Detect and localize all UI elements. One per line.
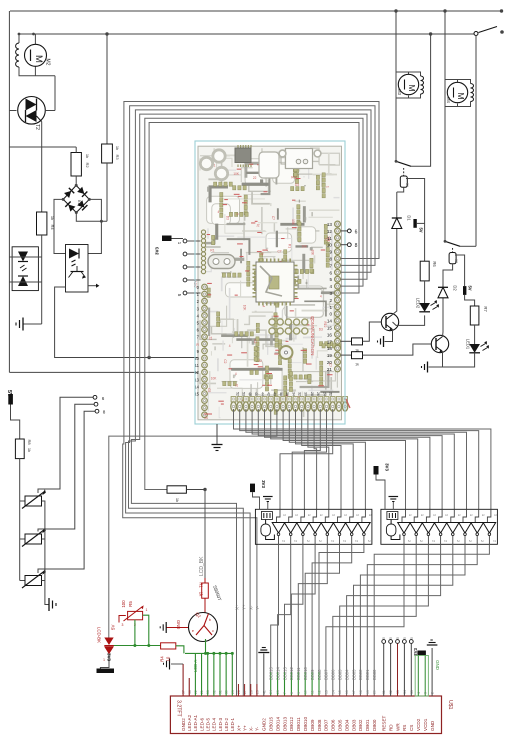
svg-text:J2: J2 bbox=[258, 359, 262, 363]
wire U6 output 7 to DB08 bbox=[319, 544, 364, 672]
svg-text:8: 8 bbox=[355, 243, 358, 249]
wire loop to touch pin 0 bbox=[123, 102, 379, 697]
PCB crystal bbox=[208, 255, 235, 269]
svg-text:J2: J2 bbox=[256, 223, 260, 227]
svg-text:12: 12 bbox=[318, 690, 322, 694]
node bridge top bbox=[75, 184, 78, 187]
svg-text:b: b bbox=[209, 618, 211, 622]
wire U3 top lead bbox=[9, 256, 41, 258]
svg-text:2: 2 bbox=[492, 540, 496, 542]
svg-text:DB010: DB010 bbox=[303, 717, 308, 731]
svg-text:C7: C7 bbox=[271, 216, 275, 220]
svg-text:U$1: U$1 bbox=[447, 700, 453, 710]
transistor T3 bbox=[431, 335, 448, 352]
wire green LED pin 6 bbox=[219, 653, 221, 696]
svg-text:12: 12 bbox=[327, 229, 333, 234]
wire green stub DB012 bbox=[290, 672, 292, 696]
wire U7 output 0 to DB07 bbox=[326, 544, 404, 696]
pin stub touch bbox=[250, 684, 252, 696]
wire PCB data 12 to driver bank bbox=[314, 409, 317, 509]
svg-text:5V: 5V bbox=[468, 285, 473, 290]
wire PCB data 11 to driver bank bbox=[308, 409, 329, 509]
pin GND2 mid ground bbox=[263, 654, 265, 697]
trimmer P1 bbox=[25, 496, 42, 506]
svg-text:22: 22 bbox=[253, 176, 257, 180]
svg-text:DB015: DB015 bbox=[269, 667, 274, 680]
node bridge left bbox=[62, 198, 65, 201]
svg-text:1: 1 bbox=[331, 514, 335, 516]
svg-text:5: 5 bbox=[403, 637, 407, 639]
junction M3 relay tap bbox=[429, 32, 432, 35]
svg-text:LCD-BK: LCD-BK bbox=[97, 627, 102, 643]
optocoupler U3 LED A bbox=[18, 252, 28, 262]
ground G1 bbox=[23, 323, 42, 325]
svg-text:1: 1 bbox=[283, 514, 287, 516]
svg-text:11: 11 bbox=[327, 236, 332, 241]
junction green bus bbox=[225, 652, 228, 655]
relay K2 switch bbox=[445, 241, 460, 246]
svg-text:1: 1 bbox=[356, 514, 360, 516]
PCB mounting holes bbox=[200, 157, 212, 169]
optocoupler U2 box bbox=[66, 245, 89, 293]
svg-text:DB013: DB013 bbox=[282, 667, 287, 680]
wire bridge right corner bbox=[88, 199, 101, 253]
svg-text:LED-3: LED-3 bbox=[218, 718, 223, 731]
wire U6 output 6 to DB09 bbox=[312, 544, 352, 672]
junction motor M2 top bbox=[32, 33, 35, 36]
svg-text:1: 1 bbox=[326, 186, 330, 188]
svg-text:16: 16 bbox=[327, 332, 333, 337]
wire U7 output 4 to DB03 bbox=[354, 544, 453, 696]
svg-text:DB013: DB013 bbox=[282, 717, 287, 731]
svg-text:15: 15 bbox=[338, 690, 342, 694]
wire LED1 to T3 emitter bbox=[443, 353, 475, 367]
svg-text:J2: J2 bbox=[260, 252, 264, 256]
wire left frame vertical bbox=[8, 11, 10, 372]
node bridge bottom bbox=[75, 211, 78, 214]
svg-text:M3: M3 bbox=[397, 89, 402, 95]
pin stub touch bbox=[256, 684, 258, 696]
svg-text:1: 1 bbox=[344, 514, 348, 516]
svg-text:5: 5 bbox=[389, 637, 393, 639]
wire PCB data 8 to driver bank bbox=[289, 409, 365, 509]
svg-text:C2: C2 bbox=[223, 359, 227, 363]
svg-text:Y+: Y+ bbox=[242, 604, 247, 610]
svg-text:38: 38 bbox=[279, 392, 283, 396]
node endpoint top right bbox=[500, 9, 503, 12]
svg-text:3V3: 3V3 bbox=[155, 247, 160, 256]
svg-text:2: 2 bbox=[318, 540, 322, 542]
ground G8 LCD bbox=[171, 663, 183, 665]
ground G4 bbox=[383, 336, 385, 347]
svg-text:10K: 10K bbox=[211, 377, 218, 381]
junction R3 tap bbox=[105, 32, 108, 35]
node bridge right bbox=[88, 198, 91, 201]
relay K2 coil bbox=[449, 253, 456, 264]
svg-text:R6: R6 bbox=[432, 261, 437, 267]
svg-text:19: 19 bbox=[366, 690, 370, 694]
svg-text:14: 14 bbox=[327, 319, 333, 324]
svg-text:20: 20 bbox=[373, 690, 377, 694]
PCB bottom pads bbox=[231, 397, 236, 402]
svg-text:K2: K2 bbox=[454, 259, 458, 263]
svg-text:R3: R3 bbox=[115, 154, 120, 160]
pin stub touch bbox=[237, 684, 239, 696]
svg-text:2: 2 bbox=[294, 540, 298, 542]
svg-text:1: 1 bbox=[457, 514, 461, 516]
wire PCB data 1 to driver bank bbox=[240, 409, 479, 509]
svg-text:DB012: DB012 bbox=[289, 717, 294, 731]
svg-text:LED-6: LED-6 bbox=[199, 718, 204, 731]
svg-text:6: 6 bbox=[102, 396, 105, 401]
power flag 3V3 U7 bbox=[374, 466, 379, 475]
svg-text:DB07: DB07 bbox=[324, 719, 329, 731]
svg-text:DB06: DB06 bbox=[331, 669, 336, 680]
svg-text:DB08: DB08 bbox=[317, 669, 322, 680]
svg-text:1: 1 bbox=[295, 514, 299, 516]
svg-text:DB015: DB015 bbox=[269, 717, 274, 731]
wire bridge bottom corner bbox=[76, 213, 107, 222]
wire U2 emitter to pad 10 line bbox=[55, 287, 198, 358]
svg-text:c: c bbox=[212, 629, 214, 633]
pin RD connector bbox=[389, 640, 393, 644]
svg-text:10K: 10K bbox=[311, 249, 315, 256]
svg-text:2: 2 bbox=[329, 298, 332, 303]
junction LCD_BK bbox=[203, 488, 206, 491]
resistor R7 bbox=[470, 306, 479, 325]
svg-text:DB014: DB014 bbox=[275, 667, 280, 680]
resistor R2 bbox=[71, 153, 81, 177]
svg-text:13: 13 bbox=[324, 690, 328, 694]
svg-text:7: 7 bbox=[283, 692, 287, 694]
resistor R3 bbox=[102, 144, 113, 163]
wire loop innermost to pad10 net bbox=[149, 123, 359, 358]
junction green bus bbox=[206, 652, 209, 655]
svg-text:2: 2 bbox=[419, 540, 423, 542]
wire triac gate bbox=[41, 122, 43, 213]
svg-text:1: 1 bbox=[445, 514, 449, 516]
svg-text:R7: R7 bbox=[483, 306, 488, 312]
svg-text:3: 3 bbox=[122, 623, 124, 627]
PCB microcontroller U5 QFP bbox=[256, 262, 294, 302]
svg-text:GND: GND bbox=[435, 660, 440, 670]
diode D2 bbox=[438, 286, 448, 288]
wire loop to R9 backlight resistor bbox=[145, 118, 363, 489]
svg-text:T2: T2 bbox=[34, 124, 40, 130]
svg-text:1k: 1k bbox=[85, 154, 90, 158]
pin RESET connector bbox=[382, 640, 386, 644]
resistor R4b bbox=[161, 643, 176, 649]
wire U6 output 1 to DB014 bbox=[278, 544, 291, 672]
junction green bus bbox=[231, 652, 234, 655]
svg-text:DB04: DB04 bbox=[344, 719, 349, 731]
wire U3 bottom lead bbox=[9, 281, 41, 283]
svg-text:22: 22 bbox=[329, 392, 333, 396]
pin stub LED-A2 bbox=[188, 678, 190, 696]
svg-text:CS: CS bbox=[409, 725, 414, 731]
trimmer P3 bbox=[25, 576, 42, 586]
wire top supply line bbox=[10, 10, 502, 12]
svg-text:D2: D2 bbox=[453, 285, 458, 291]
wire R7 to LED1 bbox=[474, 325, 476, 344]
svg-text:3: 3 bbox=[329, 291, 332, 296]
resistor R11 bbox=[341, 354, 352, 356]
pin 6 connector bbox=[93, 395, 97, 399]
svg-text:RD: RD bbox=[388, 724, 393, 731]
svg-text:40: 40 bbox=[273, 392, 277, 396]
wire P1 wiper to pin6 bbox=[38, 397, 93, 493]
svg-text:1: 1 bbox=[481, 514, 485, 516]
wire green bus backlight bbox=[185, 652, 232, 654]
PCB right pads bbox=[335, 221, 341, 227]
svg-text:23: 23 bbox=[276, 690, 280, 694]
svg-text:1k: 1k bbox=[27, 448, 32, 452]
diode bridge B1 bbox=[63, 185, 89, 212]
wire LED2 to T1 bbox=[393, 315, 425, 325]
wire M4 to relay switch bbox=[444, 107, 446, 242]
svg-text:26: 26 bbox=[316, 392, 320, 396]
svg-text:3V3: 3V3 bbox=[385, 463, 390, 471]
wire T3 emitter bbox=[429, 352, 443, 368]
relay K1 coil bbox=[400, 176, 407, 187]
wire green stub DB015 bbox=[270, 672, 272, 696]
svg-text:32: 32 bbox=[298, 392, 302, 396]
svg-text:LED-1: LED-1 bbox=[230, 718, 235, 731]
svg-text:C2: C2 bbox=[207, 388, 211, 392]
pin 6 right connector bbox=[341, 230, 348, 232]
LED LCD-BK bbox=[104, 638, 113, 646]
svg-text:X+: X+ bbox=[236, 725, 241, 731]
PCB USB connector bbox=[286, 149, 313, 169]
svg-text:5: 5 bbox=[396, 637, 400, 639]
svg-text:DB09: DB09 bbox=[310, 719, 315, 731]
motor M2 loop wires bbox=[18, 34, 20, 43]
wire T1 emitter to ground bbox=[385, 330, 393, 342]
svg-text:M4: M4 bbox=[446, 97, 451, 103]
wire loop to touch pin 2 bbox=[129, 110, 372, 696]
wire to triac left bbox=[9, 110, 16, 112]
driver bank U6 bbox=[255, 509, 372, 544]
relay K1 switch bbox=[396, 161, 411, 166]
resistor R1 bbox=[204, 578, 206, 583]
svg-text:R2: R2 bbox=[85, 162, 90, 168]
driver bank U7 bbox=[381, 509, 498, 544]
svg-text:1k: 1k bbox=[115, 146, 120, 150]
ground G9 LCD right bbox=[431, 648, 433, 696]
svg-text:2: 2 bbox=[306, 540, 310, 542]
svg-text:DB01: DB01 bbox=[365, 719, 370, 731]
trimmer R5 bbox=[128, 611, 143, 619]
PCB left pads lower bbox=[202, 284, 208, 290]
svg-text:LED-A2: LED-A2 bbox=[187, 714, 192, 731]
pin CS connector bbox=[409, 640, 413, 644]
power flag 3V3 LCD bbox=[417, 651, 426, 656]
PCB USB interface chip bbox=[235, 148, 251, 163]
wire R4b to bus bbox=[176, 646, 184, 654]
svg-text:2: 2 bbox=[367, 540, 371, 542]
svg-text:1: 1 bbox=[329, 305, 332, 310]
PCB header pads mid bbox=[269, 319, 275, 325]
svg-text:D3: D3 bbox=[295, 183, 299, 187]
svg-text:DB010: DB010 bbox=[303, 667, 308, 680]
pin 8 right connector bbox=[341, 244, 348, 246]
svg-text:10K: 10K bbox=[291, 219, 295, 226]
ground G6 U6 bbox=[267, 502, 269, 510]
svg-text:LED-5: LED-5 bbox=[206, 718, 211, 731]
wire green stub DB09 bbox=[311, 672, 313, 696]
motor M4 symbol bbox=[447, 82, 467, 102]
wire green stub DB010 bbox=[304, 672, 306, 696]
svg-text:DB02: DB02 bbox=[358, 719, 363, 731]
svg-text:DB011: DB011 bbox=[296, 667, 301, 680]
svg-text:R12: R12 bbox=[291, 176, 297, 180]
optocoupler U3 LED B bbox=[18, 276, 28, 286]
wire PCB data 2 to driver bank bbox=[246, 409, 467, 509]
LED LED1 bbox=[469, 344, 480, 353]
resistor R6 bbox=[420, 261, 429, 281]
svg-text:17: 17 bbox=[327, 339, 333, 344]
svg-text:LED-A: LED-A bbox=[193, 659, 198, 672]
power flag 5V relay1 bbox=[413, 219, 416, 228]
PCB round pad bbox=[280, 346, 293, 359]
svg-text:2: 2 bbox=[456, 540, 460, 542]
wire PCB data 6 to driver bank bbox=[271, 409, 418, 509]
wire bridge left corner bbox=[54, 199, 66, 253]
svg-text:LED-2: LED-2 bbox=[224, 718, 229, 731]
transistor Q2 bbox=[189, 613, 218, 642]
pin 8 connector bbox=[95, 409, 99, 413]
svg-text:1: 1 bbox=[432, 514, 436, 516]
wire PCB data 15 to driver bank bbox=[280, 409, 333, 509]
LCD module U$1 box bbox=[170, 696, 441, 734]
wire loop to touch pin 1 bbox=[126, 106, 375, 696]
svg-text:R1: R1 bbox=[210, 249, 214, 253]
svg-text:R4: R4 bbox=[160, 656, 165, 662]
wire trimmer right rail bbox=[42, 501, 50, 605]
pin WR connector bbox=[396, 640, 400, 644]
wire P3 wiper to pin8 bbox=[38, 411, 95, 573]
wire green stub DB013 bbox=[284, 672, 286, 696]
trimmer P2 bbox=[25, 534, 42, 544]
svg-text:C7: C7 bbox=[277, 249, 281, 253]
svg-text:13: 13 bbox=[327, 222, 333, 227]
inductor winding of M2 bbox=[16, 43, 19, 49]
resistor R9 bbox=[167, 486, 186, 493]
svg-text:X-: X- bbox=[249, 726, 254, 731]
svg-text:DB014: DB014 bbox=[275, 717, 280, 731]
svg-text:10: 10 bbox=[304, 690, 308, 694]
svg-text:R5: R5 bbox=[128, 601, 133, 607]
svg-text:DB03: DB03 bbox=[351, 719, 356, 731]
svg-text:LED-A1: LED-A1 bbox=[193, 714, 198, 731]
svg-text:DB03: DB03 bbox=[351, 669, 356, 680]
svg-text:R4: R4 bbox=[50, 224, 55, 230]
wire PCB data 4 to driver bank bbox=[258, 409, 442, 509]
svg-text:19: 19 bbox=[327, 353, 333, 358]
wire LED to 3V3 bbox=[100, 654, 109, 670]
svg-text:1: 1 bbox=[146, 608, 148, 612]
wire LCD_BK vertical bbox=[204, 490, 206, 579]
svg-text:14: 14 bbox=[331, 690, 335, 694]
wire P2 wiper to pin7 bbox=[38, 404, 94, 531]
wire PCB pad to LCD-BK LED bbox=[109, 409, 277, 638]
svg-text:3V3: 3V3 bbox=[413, 647, 418, 655]
ground G5 bbox=[427, 362, 429, 373]
wire U7 output 1 to DB06 bbox=[333, 544, 416, 696]
ground G2 bbox=[48, 598, 50, 611]
svg-text:5: 5 bbox=[410, 637, 414, 639]
svg-text:GND: GND bbox=[430, 720, 435, 731]
wire PCB data 0 to driver bank bbox=[234, 409, 491, 509]
svg-text:2: 2 bbox=[444, 540, 448, 542]
svg-text:M: M bbox=[33, 55, 44, 63]
wire Q2 emitter green bbox=[205, 639, 207, 653]
wire U7 output 2 to DB05 bbox=[340, 544, 429, 696]
pin stub touch bbox=[244, 684, 246, 696]
junction node at M3 tap bbox=[394, 9, 397, 12]
svg-text:GND: GND bbox=[176, 620, 181, 629]
power flag 3V3 backlight bbox=[97, 669, 115, 674]
PCB hole near USB bbox=[279, 150, 286, 157]
svg-text:RS: RS bbox=[402, 725, 407, 731]
wire green LED pin 5 bbox=[213, 653, 215, 696]
wire PCB data 5 to driver bank bbox=[265, 409, 430, 509]
resistor R10 bbox=[341, 340, 352, 342]
svg-text:LCD_BK: LCD_BK bbox=[199, 556, 205, 576]
wire 5V rail down bbox=[19, 459, 21, 581]
svg-text:DB011: DB011 bbox=[296, 717, 301, 731]
svg-text:8: 8 bbox=[329, 257, 332, 262]
wire U6 output 4 to DB011 bbox=[298, 544, 327, 672]
svg-text:36: 36 bbox=[285, 392, 289, 396]
wire K1 to 5V branch bbox=[406, 179, 425, 262]
svg-text:52: 52 bbox=[236, 392, 240, 396]
svg-text:7: 7 bbox=[329, 263, 332, 268]
wire M3 feed bbox=[395, 11, 397, 72]
svg-text:5: 5 bbox=[382, 637, 386, 639]
wire R11 to T3 base bbox=[363, 344, 432, 355]
wire to trimmer P2 left bbox=[20, 538, 25, 540]
svg-text:8: 8 bbox=[103, 410, 106, 415]
svg-text:6: 6 bbox=[329, 270, 332, 275]
svg-text:R: R bbox=[196, 343, 199, 347]
svg-text:D3: D3 bbox=[225, 216, 229, 220]
junction green bus bbox=[212, 652, 215, 655]
power flag 5V relay2 bbox=[463, 286, 466, 295]
inductor winding of M3 bbox=[421, 76, 424, 81]
wire T3 collector up bbox=[442, 297, 445, 336]
switch S1 open contact bbox=[474, 32, 478, 36]
svg-text:4: 4 bbox=[235, 372, 237, 376]
junction pad10 line bbox=[147, 356, 150, 359]
svg-text:3V3: 3V3 bbox=[261, 480, 266, 488]
svg-text:22: 22 bbox=[208, 336, 212, 340]
svg-text:42: 42 bbox=[267, 392, 271, 396]
svg-text:LED2: LED2 bbox=[416, 298, 421, 309]
wire U6 output 0 to DB015 bbox=[271, 544, 279, 672]
svg-text:1k: 1k bbox=[175, 498, 180, 502]
transistor T1 bbox=[381, 313, 398, 330]
svg-text:18: 18 bbox=[359, 690, 363, 694]
svg-text:6: 6 bbox=[355, 229, 358, 235]
optocoupler U2 transistor bbox=[71, 271, 84, 273]
svg-text:4: 4 bbox=[320, 294, 322, 298]
wire R10 to T1 base bbox=[363, 322, 382, 341]
wire U7 output 3 to DB04 bbox=[347, 544, 441, 696]
pin stub GND2 bbox=[182, 664, 184, 696]
svg-text:1: 1 bbox=[493, 514, 497, 516]
svg-text:Y-: Y- bbox=[255, 605, 260, 610]
